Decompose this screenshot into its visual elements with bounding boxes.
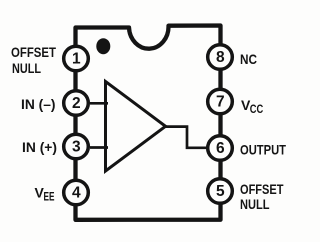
svg-text:IN (–): IN (–) [21, 96, 56, 112]
pin 2 [64, 91, 89, 116]
label VCC (pin 7) [241, 97, 263, 116]
pin 3 [64, 134, 89, 159]
svg-text:2: 2 [72, 95, 81, 112]
pin-1 indicator dot [96, 38, 110, 54]
svg-text:4: 4 [72, 185, 81, 202]
svg-text:NULL: NULL [12, 60, 41, 76]
wire pin 2 to op-amp inverting input [90, 102, 108, 105]
pin 1 [64, 46, 89, 71]
svg-text:NULL: NULL [240, 196, 270, 212]
op-amp U1 triangle [106, 82, 166, 172]
label OFFSET NULL (pin 5) [240, 181, 284, 212]
svg-text:5: 5 [216, 183, 225, 200]
pin 8 [208, 45, 233, 70]
svg-text:OFFSET: OFFSET [11, 44, 56, 60]
svg-text:1: 1 [72, 51, 81, 68]
svg-text:NC: NC [240, 51, 257, 67]
pin 4 [64, 180, 89, 205]
svg-text:EE: EE [44, 191, 55, 203]
svg-text:CC: CC [250, 104, 263, 116]
IC body outline (DIP-8 package) with pin-1 notch [76, 26, 221, 220]
pin 7 [208, 89, 233, 114]
wire pin 3 to op-amp non-inverting input [90, 146, 108, 149]
svg-text:IN (+): IN (+) [22, 139, 57, 155]
svg-text:8: 8 [216, 49, 225, 66]
pin 6 [208, 136, 233, 161]
svg-text:OFFSET: OFFSET [240, 181, 284, 197]
wire op-amp output to pin 6 [164, 127, 207, 148]
pin 5 [208, 179, 233, 204]
svg-text:3: 3 [72, 139, 81, 156]
svg-text:6: 6 [216, 140, 225, 157]
svg-text:7: 7 [216, 94, 225, 111]
svg-text:OUTPUT: OUTPUT [240, 141, 286, 157]
label OFFSET NULL (pin 1) [11, 44, 56, 76]
label VEE (pin 4) [35, 185, 55, 204]
